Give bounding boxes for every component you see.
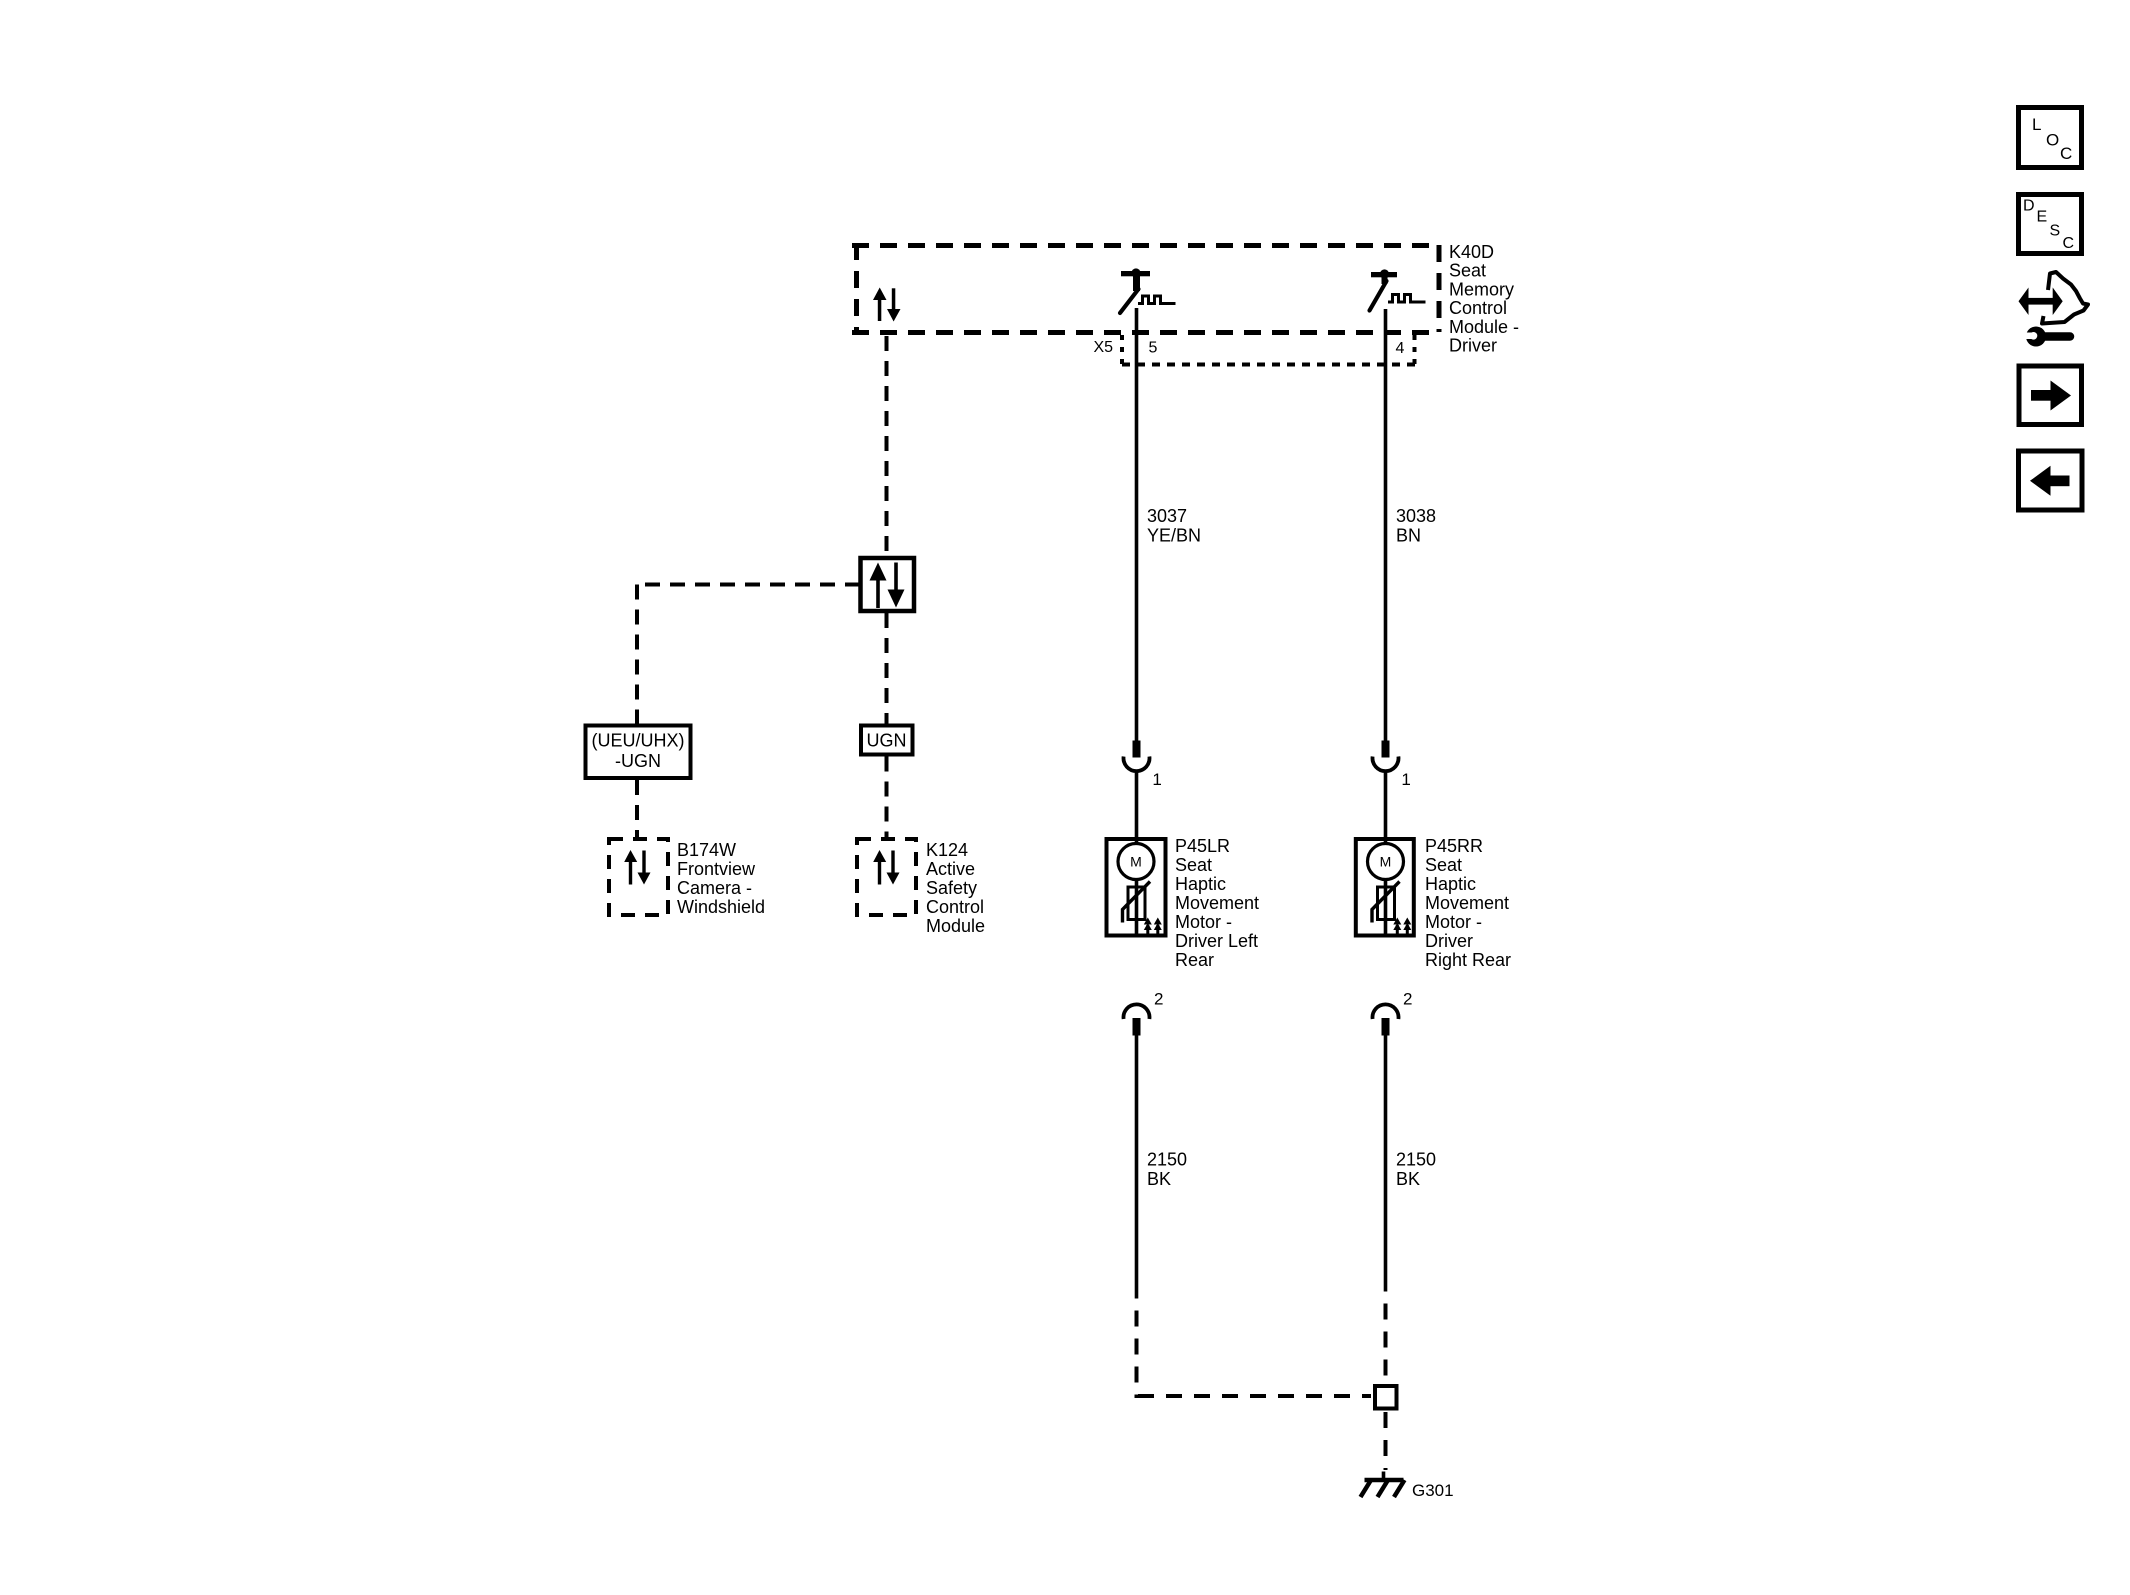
svg-text:X5: X5 [1094,339,1114,356]
icon button previous (left arrow) [2019,451,2083,510]
wire 2150 right [1384,1036,1388,1292]
motor circle M (P45RR) [1368,844,1404,880]
svg-text:-UGN: -UGN [615,751,661,771]
svg-text:5: 5 [1149,340,1158,357]
icon button LOC [2019,108,2082,168]
wire into motor P45LR [1135,772,1139,936]
svg-text:1: 1 [1401,770,1410,789]
svg-text:UGN: UGN [867,731,907,751]
PTC thermistor (P45LR) [1128,887,1145,920]
svg-text:4: 4 [1396,340,1405,357]
icon button next (right arrow) [2019,366,2082,425]
svg-text:O: O [2046,131,2059,150]
data link dashed wire left vertical [635,585,639,724]
data link dashed wire to B174W [635,780,639,837]
serial data junction box [861,558,915,611]
motor circle M (P45LR) [1118,844,1154,880]
dashed ground wire right vertical [1384,1292,1388,1383]
driver (output transistor) right inside K40D [1370,269,1426,310]
wire 3038 from K40D pin 4 [1384,309,1388,741]
data link dashed wire UGN to K124 [885,757,889,838]
UGN network label box [861,726,913,755]
inline connector pin 2 left [1124,1004,1150,1035]
wire 2150 left [1135,1036,1139,1299]
svg-text:1: 1 [1152,770,1161,789]
svg-text:2: 2 [1154,990,1163,1009]
motor P45RR box [1356,839,1414,936]
dashed ground wire horizontal [1138,1394,1371,1398]
movement arrows (P45LR) [1144,918,1162,935]
data link dashed wire horizontal to left branch [637,583,860,587]
module K124 dashed box [857,839,916,915]
motor P45LR box [1107,839,1166,936]
svg-text:2: 2 [1403,990,1412,1009]
inline connector pin 2 right [1373,1004,1399,1035]
icon button DESC [2019,195,2082,254]
svg-text:D: D [2023,198,2035,215]
wire 3037 from K40D pin 5 [1135,308,1139,741]
driver (output transistor) left inside K40D [1120,268,1176,313]
module B174W dashed box [609,839,668,915]
svg-text:(UEU/UHX): (UEU/UHX) [592,731,685,751]
module K40D dashed box [852,243,1440,333]
connector X5 dotted outline [1122,335,1416,365]
dashed ground wire left vertical [1135,1299,1139,1399]
svg-text:E: E [2037,209,2048,226]
data link dashed wire junction box to UGN [885,613,889,724]
movement arrows (P45RR) [1393,918,1411,935]
svg-text:G301: G301 [1412,1481,1454,1500]
svg-text:M: M [1380,854,1392,870]
dashed wire to ground [1384,1412,1388,1470]
icon repair instructions (arrow, panel outline, wrench) [2019,272,2089,347]
svg-text:L: L [2032,115,2041,134]
ground symbol G301 [1361,1472,1405,1498]
inline connector pin 1 right [1373,741,1399,772]
(UEU/UHX)-UGN network label box [586,726,691,779]
inline connector pin 1 left [1124,741,1150,772]
serial data symbol inside K40D [873,288,901,322]
data link dashed wire from K40D down [885,336,889,556]
svg-text:M: M [1130,854,1142,870]
svg-text:C: C [2063,235,2075,252]
svg-text:S: S [2050,223,2061,240]
svg-text:C: C [2060,144,2072,163]
wire into motor P45RR [1384,772,1388,936]
PTC thermistor (P45RR) [1378,887,1395,920]
splice junction square [1375,1386,1397,1409]
